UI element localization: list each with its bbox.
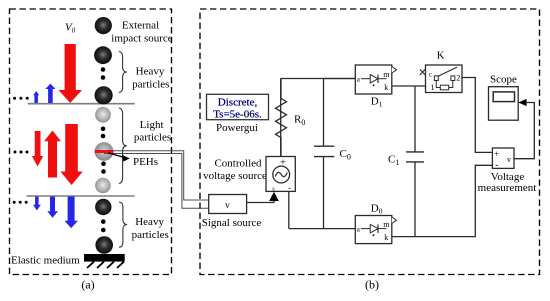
svg-text:m: m bbox=[383, 220, 390, 229]
label Signal source bbox=[202, 217, 262, 229]
svg-text:(b): (b) bbox=[365, 278, 379, 292]
node chain dots below PEH bbox=[101, 161, 106, 173]
svg-text:Controlled: Controlled bbox=[214, 157, 262, 169]
label Voltage measurement bbox=[478, 171, 537, 194]
label Elastic medium bbox=[11, 255, 80, 267]
wire CVS top lead bbox=[280, 79, 282, 157]
wire big red down arrow (middle) bbox=[60, 124, 82, 185]
svg-text:(a): (a) bbox=[81, 278, 94, 292]
label Light particles bbox=[134, 119, 171, 144]
label PEHs bbox=[133, 156, 158, 168]
wire twin leads from PEH to panel b bbox=[104, 151, 209, 209]
label (b) bbox=[365, 278, 379, 292]
capacitor C0 bbox=[314, 79, 351, 229]
resistor R0 bbox=[276, 98, 306, 156]
transducer PEH ball c5 bbox=[95, 142, 114, 161]
wire D1 k to breaker K bbox=[392, 85, 426, 87]
powergui block bbox=[207, 94, 269, 120]
wire arrow to PEHs bbox=[109, 153, 130, 162]
svg-text:Ts=5e-06s.: Ts=5e-06s. bbox=[213, 109, 262, 121]
wire small blue up arrow (top section) bbox=[33, 91, 39, 103]
wire small blue down arrow (bottom) bbox=[33, 197, 41, 211]
node chain dots upper bbox=[101, 67, 106, 80]
node brace light particles bbox=[119, 108, 127, 184]
label Heavy particles top bbox=[132, 66, 169, 91]
svg-text:Heavy: Heavy bbox=[135, 216, 164, 228]
node brace heavy particles top bbox=[119, 52, 127, 93]
svg-text:K: K bbox=[437, 51, 445, 62]
svg-text:c: c bbox=[429, 71, 432, 79]
label Powergui bbox=[216, 122, 258, 134]
label D1 bbox=[371, 95, 383, 108]
svg-text:External: External bbox=[122, 20, 159, 32]
svg-text:Elastic medium: Elastic medium bbox=[11, 255, 80, 267]
wire red impact arrow (down) bbox=[59, 44, 83, 103]
svg-text:Powergui: Powergui bbox=[216, 122, 258, 134]
particle c4 light bbox=[95, 107, 111, 123]
wire VM v output to scope bbox=[514, 99, 534, 159]
wire separator line 1 bbox=[28, 103, 135, 105]
svg-text:k: k bbox=[384, 83, 388, 92]
node brace heavy particles bottom bbox=[119, 202, 127, 247]
particle c2 heavy bbox=[94, 46, 112, 64]
svg-text:2: 2 bbox=[456, 74, 460, 83]
svg-text:impact source: impact source bbox=[111, 32, 173, 44]
svg-text:+: + bbox=[494, 149, 499, 159]
node chain dots lower bbox=[101, 219, 106, 232]
particle c6 light bbox=[95, 178, 111, 194]
wire red up arrow (middle) bbox=[44, 131, 61, 178]
svg-text:v: v bbox=[507, 155, 511, 164]
svg-text:particles: particles bbox=[132, 78, 169, 90]
particle c7 heavy bbox=[95, 199, 111, 215]
panel (a) dashed frame bbox=[10, 9, 172, 275]
label Controlled voltage source bbox=[203, 157, 267, 182]
svg-text:particles: particles bbox=[132, 229, 169, 241]
svg-text:k: k bbox=[384, 233, 388, 242]
wire medium blue down arrow (bottom) bbox=[47, 197, 58, 218]
node dots left of line 1 bbox=[13, 97, 29, 100]
panel (b) dashed frame bbox=[200, 9, 540, 275]
particle c8 heavy bbox=[95, 236, 113, 254]
svg-text:Heavy: Heavy bbox=[136, 66, 165, 78]
wire top bus into D1 bbox=[324, 78, 356, 80]
wire bottom bus bbox=[289, 228, 356, 230]
svg-text:m: m bbox=[383, 70, 390, 79]
capacitor C1 bbox=[388, 86, 424, 237]
wire CVS bottom lead to bottom bus bbox=[288, 191, 290, 228]
source signal source block v bbox=[209, 195, 247, 214]
breaker K block bbox=[420, 51, 462, 93]
wire medium blue up arrow (top section) bbox=[45, 84, 55, 103]
source U1 controlled voltage source bbox=[266, 157, 295, 193]
meter voltage measurement block bbox=[492, 148, 514, 170]
svg-text:Scope: Scope bbox=[490, 74, 517, 86]
label Heavy particles bottom bbox=[132, 216, 169, 241]
wire top bus bbox=[281, 79, 355, 99]
wire large blue down arrow (bottom) bbox=[65, 197, 79, 229]
svg-text:measurement: measurement bbox=[478, 182, 537, 194]
wire K output to voltage measurement + bbox=[462, 78, 492, 153]
node dots middle section bbox=[14, 151, 29, 154]
node V0 impact velocity label bbox=[65, 22, 76, 35]
wire small red down arrow (middle) bbox=[32, 131, 43, 167]
svg-text:-: - bbox=[288, 184, 291, 193]
ground hatching bbox=[87, 262, 124, 268]
scope block bbox=[489, 74, 519, 121]
svg-text:particles: particles bbox=[134, 132, 171, 144]
svg-text:Signal source: Signal source bbox=[202, 217, 262, 229]
diode D0 block bbox=[355, 202, 396, 243]
transducer PEH red band bbox=[95, 150, 114, 153]
svg-text:Light: Light bbox=[140, 119, 164, 131]
wire v output to controlled voltage source bbox=[247, 192, 279, 203]
svg-text:1: 1 bbox=[431, 83, 435, 92]
node dots left of line 2 bbox=[13, 201, 28, 204]
wire separator line 2 bbox=[27, 195, 135, 197]
particle c3 heavy bbox=[95, 86, 113, 104]
svg-text:-: - bbox=[495, 160, 498, 170]
ground elastic base block bbox=[84, 254, 125, 262]
label External impact source bbox=[111, 20, 173, 45]
svg-text:PEHs: PEHs bbox=[133, 156, 158, 168]
diode D1 block bbox=[355, 65, 396, 94]
svg-text:voltage source: voltage source bbox=[203, 170, 267, 182]
label (a) bbox=[81, 278, 94, 292]
wire D0 k node to voltage measurement - bbox=[392, 165, 493, 236]
particle chain: impact ball c1 bbox=[95, 17, 112, 34]
svg-text:Discrete,: Discrete, bbox=[218, 97, 258, 109]
node chain dots light section bbox=[101, 127, 106, 139]
svg-text:v: v bbox=[225, 200, 230, 210]
